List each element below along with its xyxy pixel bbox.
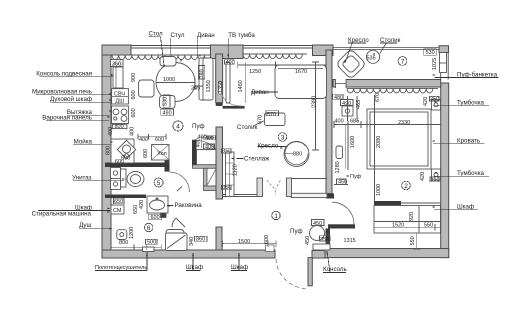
svg-text:420: 420 [420,172,426,181]
dim line bedroom width [334,121,441,128]
svg-text:536: 536 [367,55,376,61]
partition wc/shower [105,195,146,199]
svg-text:Кресло: Кресло [258,143,279,150]
svg-text:Мойка: Мойка [74,139,93,146]
svg-text:550: 550 [410,236,416,245]
kitchen opening arc [222,94,242,106]
svg-text:ТВ тумба: ТВ тумба [228,32,255,39]
fridge [152,145,170,161]
bedroom bench [336,146,343,159]
RIGHT LABELS [433,78,499,210]
console hanging kitchen [113,67,123,88]
entrance door leaf [308,258,312,286]
washing machine [111,205,124,214]
room 7 [398,57,407,66]
svg-text:600: 600 [155,137,164,143]
wardrobe bedroom [374,206,441,234]
nightstand left [342,106,353,116]
svg-text:Кровать: Кровать [457,138,480,145]
svg-text:2: 2 [404,183,408,190]
towel warmer [143,247,155,252]
dim boxes [114,49,440,242]
wall bottom right [325,249,449,258]
svg-text:480: 480 [334,95,343,101]
wall kitchen/living gray upper [216,54,223,103]
wall chunk above tv [211,45,244,59]
svg-text:СМ: СМ [113,208,122,214]
svg-text:490: 490 [342,101,351,107]
wall right outer [441,83,449,258]
bed [367,109,431,169]
nightstand right top [432,100,441,111]
wall corner top right [439,46,449,53]
wc door arc [170,172,190,192]
svg-text:Стеллаж: Стеллаж [244,156,270,163]
svg-text:350: 350 [222,185,231,191]
svg-text:800: 800 [121,156,130,162]
svg-text:450: 450 [313,221,322,227]
svg-text:Хол: Хол [157,151,167,157]
svg-text:5: 5 [157,180,161,187]
nightstand right bottom [432,169,441,180]
svg-text:1025: 1025 [432,58,438,70]
svg-text:Столик: Столик [380,37,401,44]
balcony table [366,50,379,63]
tv bar wall [223,106,245,109]
niche with diagonal [207,168,216,186]
svg-text:800: 800 [106,146,112,155]
svg-text:400: 400 [139,137,148,143]
svg-text:1500: 1500 [238,239,250,245]
FURNITURE [111,49,447,252]
svg-text:900: 900 [131,73,137,82]
wall chunk living/balcony corner [313,45,334,56]
sofa label [251,91,278,93]
floor drain box [266,245,275,252]
svg-text:400: 400 [205,145,214,151]
wall bottom right step [312,251,326,259]
window scallops bedroom [347,88,438,93]
chair left [139,80,155,97]
wall bottom left [102,250,275,258]
svg-text:СВЧ: СВЧ [114,92,125,98]
svg-text:Микроволновая печь: Микроволновая печь [32,89,92,96]
balcony banquette [440,53,447,73]
svg-text:350: 350 [431,177,440,183]
wall left outer [102,45,111,258]
chair top [160,57,176,67]
bathroom sink [147,196,168,213]
wall hall/living gray lower [216,127,223,199]
leader arrowheads [108,54,437,256]
svg-text:1: 1 [274,213,278,220]
rakovina label [167,204,174,206]
living door jamb right [287,178,292,197]
dim line bed [347,122,349,170]
dining table [156,63,195,102]
dim line 2380 [312,62,319,150]
sink bowl [123,145,131,153]
svg-text:420: 420 [423,97,429,106]
tv stand [226,62,230,103]
svg-text:420: 420 [139,200,145,209]
wall balcony/bedroom [333,80,441,88]
corner sink unit [111,139,134,163]
svg-text:Пуф: Пуф [350,174,362,180]
svg-text:Пуф-банкетка: Пуф-банкетка [457,71,498,78]
svg-text:Кресло: Кресло [348,37,369,44]
svg-text:600: 600 [143,149,149,158]
svg-text:1670: 1670 [295,69,307,75]
svg-text:350: 350 [222,149,231,155]
svg-text:1000: 1000 [376,184,382,196]
LABEL ARROWS interior [167,92,287,205]
niche bottom wall [204,186,218,191]
svg-text:6: 6 [147,225,151,232]
svg-text:Стол: Стол [149,31,164,38]
room 1 [272,211,280,219]
svg-text:Диван: Диван [197,32,215,39]
wall corridor south [328,224,355,228]
svg-text:670: 670 [375,93,381,102]
balcony armchair diamond [336,49,366,79]
svg-text:1315: 1315 [344,238,356,244]
svg-text:500: 500 [147,239,156,245]
living doors dashed [267,180,281,195]
svg-text:Консоль подвесная: Консоль подвесная [36,70,92,77]
wall vertical living/bedroom [326,50,332,194]
dim line living top [238,62,326,103]
svg-text:600: 600 [131,90,137,99]
shower tray [117,230,127,240]
svg-text:650: 650 [114,199,123,205]
svg-text:Унитаз: Унитаз [72,174,92,181]
svg-text:600: 600 [264,235,270,244]
svg-text:1350: 1350 [218,81,224,93]
bottom closet lines [223,241,277,248]
DIMENSIONS [138,62,441,171]
svg-text:Столик: Столик [237,124,258,131]
wall top thin double line [131,46,318,49]
toilet tank [121,169,127,187]
wardrobe top wall [374,201,401,206]
svg-text:400: 400 [206,135,214,141]
svg-text:Диван: Диван [251,89,269,96]
svg-text:860: 860 [196,237,205,243]
entrance pouf circle [310,226,325,241]
svg-text:Стиральная машина: Стиральная машина [32,210,92,217]
svg-text:350: 350 [320,237,329,243]
svg-text:Полотенцесушитель: Полотенцесушитель [95,265,147,271]
LEFT LABELS [36,76,148,270]
bathroom door leaf [172,187,185,228]
wall stub below sink [161,211,167,217]
svg-text:Тумбочка: Тумбочка [457,100,485,107]
svg-text:Шкаф: Шкаф [186,264,203,271]
BOTTOM LABELS [186,251,346,273]
svg-text:Пуф: Пуф [192,123,205,130]
entrance door swing dashed arc [276,259,308,289]
toilet bowl [127,172,144,187]
balcony right glazing [441,52,449,80]
svg-text:Стул: Стул [171,32,185,39]
svg-text:2080: 2080 [376,136,382,148]
vent shaft hatched [111,60,124,67]
svg-text:450: 450 [305,236,311,245]
svg-text:340: 340 [189,237,195,246]
extra dim lines [111,95,441,250]
kitchen opening door leaf [218,82,221,94]
cooktop burners [113,109,119,115]
svg-text:1200: 1200 [129,227,135,239]
svg-text:400: 400 [195,138,201,147]
svg-text:1250: 1250 [249,69,261,75]
bathtub glass bar [166,230,184,237]
dim 245 [138,78,203,140]
hall closet wall B [193,165,217,169]
svg-text:Шкаф: Шкаф [231,264,248,271]
chair bottom [160,96,176,109]
ROOM NUMBERS [145,57,411,232]
svg-text:4: 4 [176,124,180,131]
armchair living [284,142,309,167]
window scallops top [112,54,307,60]
cooktop box [112,106,129,124]
partition kitchen/hall [192,140,197,166]
svg-text:Тумбочка: Тумбочка [457,170,485,177]
partition wc right [165,158,170,172]
svg-text:Варочная панель: Варочная панель [42,115,92,122]
svg-text:Консоль: Консоль [323,266,347,273]
room 3 [278,133,287,142]
svg-text:2380: 2380 [312,96,318,108]
room 4 [173,121,183,131]
balcony door opening [336,79,347,88]
wc shelf [111,168,121,190]
svg-text:570: 570 [267,112,276,118]
svg-text:350: 350 [430,96,439,102]
room 5 [154,178,163,187]
rack label [237,158,244,160]
svg-text:1000: 1000 [163,77,175,83]
wall cap bedroom door [326,194,334,199]
svg-text:1350: 1350 [206,80,212,92]
svg-text:1600: 1600 [350,136,356,148]
microwave oven box [112,89,129,104]
svg-text:3: 3 [281,134,285,141]
kitchen sofa [199,58,213,100]
svg-text:600: 600 [131,108,137,117]
svg-text:800: 800 [119,240,128,246]
living/hall wall left thin [222,195,257,197]
niche left wall [204,168,208,186]
counter 800 box [112,124,127,128]
room 2 [402,181,411,190]
living south wall hollow [291,178,327,180]
bathtub [166,233,188,251]
svg-text:Раковина: Раковина [175,202,203,209]
svg-text:400: 400 [130,127,136,136]
kitchen door arc [197,141,223,167]
svg-text:2330: 2330 [398,120,410,126]
svg-text:245: 245 [191,85,200,91]
svg-text:Духовой шкаф: Духовой шкаф [50,96,92,103]
svg-text:Пуф: Пуф [290,228,303,235]
room 6 [145,223,153,231]
side table label [253,121,264,126]
living door jamb left [257,178,263,197]
bedroom door arc [332,202,354,224]
svg-text:1120: 1120 [233,164,239,176]
wall cap [216,103,223,106]
svg-text:920: 920 [409,212,415,221]
rack [226,152,235,197]
living side table [265,113,286,126]
wall top-left corner block [102,45,131,55]
svg-text:400: 400 [108,127,114,136]
svg-text:1460: 1460 [238,80,244,92]
hall closet box [197,150,217,165]
partition kitchen/wc top [105,163,170,168]
svg-text:1280: 1280 [335,161,341,173]
wall balcony top glazing [333,48,448,50]
TOP LABELS [149,37,398,66]
svg-text:800: 800 [115,124,124,130]
svg-text:Душ: Душ [79,222,91,229]
svg-text:400: 400 [226,60,235,66]
svg-text:400: 400 [335,119,344,125]
armchair label [258,146,287,148]
svg-text:880: 880 [293,152,302,158]
svg-text:360: 360 [112,61,121,67]
svg-text:685: 685 [350,119,359,125]
svg-text:ДШ: ДШ [116,99,125,105]
svg-text:7: 7 [401,58,405,65]
svg-text:Шкаф: Шкаф [457,204,474,211]
svg-text:600: 600 [151,215,160,221]
wall to bottom [326,229,331,249]
living sofa [275,65,327,99]
entrance console [313,244,330,250]
hall closet pillar [216,227,222,250]
